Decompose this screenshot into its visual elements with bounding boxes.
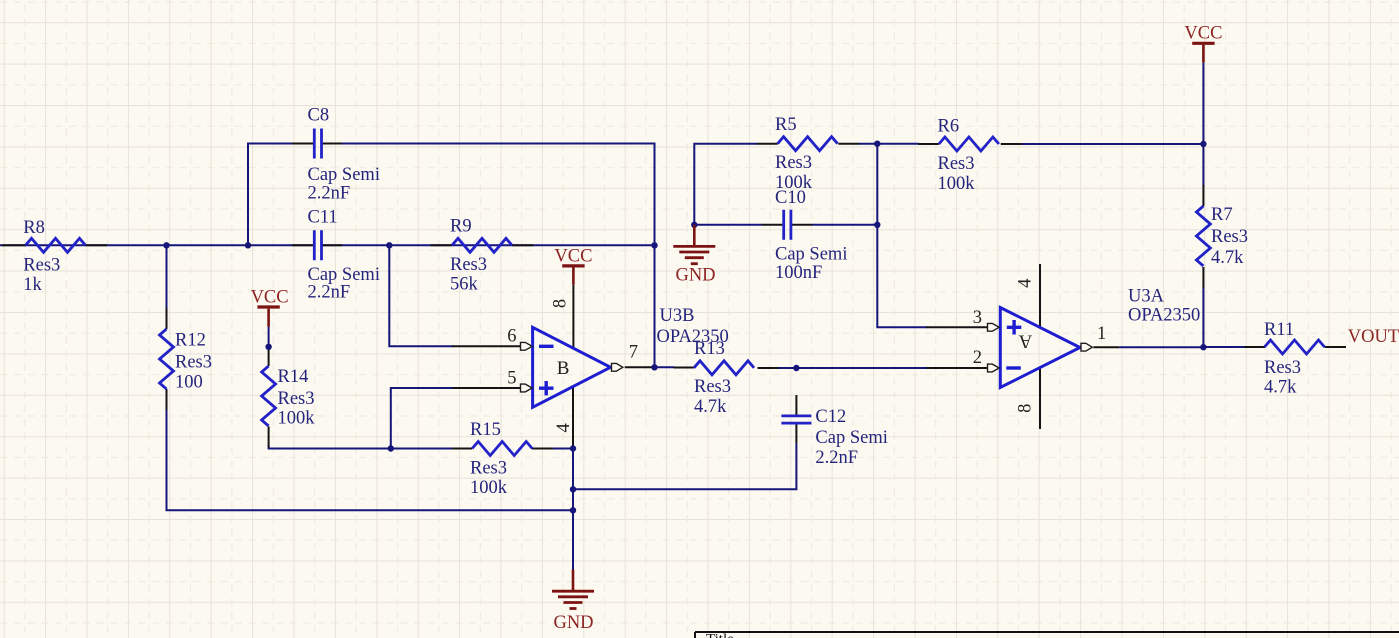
resistor R13 [694,361,754,375]
pin R14 top [268,345,270,366]
wire R14 top [268,327,270,346]
svg-text:VOUT: VOUT [1348,327,1399,347]
svg-text:Cap Semi: Cap Semi [815,428,887,448]
svg-text:U3A: U3A [1128,287,1165,307]
svg-text:R11: R11 [1264,320,1294,340]
pin R5 right [838,143,859,145]
junction R13/C12 [793,365,799,371]
svg-text:GND: GND [675,266,715,286]
svg-text:VCC: VCC [251,287,289,307]
pin R12 bottom [166,389,168,410]
wire to pin 6 [389,245,453,346]
pin R12 top [166,308,168,329]
resistor R14 (vertical) [262,366,276,426]
svg-text:Res3: Res3 [775,153,812,173]
wire R13 to pin 2 [778,367,927,369]
wire R6 right to VCC net [1021,143,1203,145]
svg-text:7: 7 [629,342,638,362]
pin 8 U3A vertical [1039,368,1041,429]
wire C12 return [573,443,796,489]
svg-text:A: A [1018,331,1032,352]
svg-text:Cap Semi: Cap Semi [308,165,380,185]
wire R15 right to pin4 [553,448,574,450]
op-amp U3B plus sign [539,381,554,395]
junction C10 right [874,222,880,228]
svg-text:4: 4 [554,423,574,432]
svg-text:Res3: Res3 [1211,227,1248,247]
pin 6 U3B horizontal [452,345,522,347]
svg-text:1k: 1k [23,275,42,295]
pin C8 right [323,143,342,145]
pin R9 left [431,244,453,246]
junction R15 right pin4 [570,445,576,451]
svg-text:56k: 56k [450,274,479,294]
svg-text:6: 6 [507,327,516,347]
svg-text:Title: Title [706,632,734,638]
svg-text:8: 8 [550,299,570,308]
svg-text:2.2nF: 2.2nF [308,283,351,303]
svg-text:Res3: Res3 [278,389,315,409]
svg-text:1: 1 [1097,324,1106,344]
wire GND/C10 left vertical [694,144,757,225]
svg-text:C10: C10 [775,188,806,208]
wire mid vertical to pin 3 [877,144,927,328]
wire C8 feedback branch [248,144,655,368]
resistor R12 (vertical) [160,329,174,389]
GND symbol bottom (U3B) [552,570,594,609]
pin 7 U3B output [625,366,655,368]
capacitor C11 plates [314,230,321,260]
resistor R11 [1265,340,1325,354]
pin R11 right [1325,346,1347,348]
capacitor C10 plates [784,210,791,240]
VCC symbol R14 [257,305,279,308]
wire C10 horizontal [694,224,877,226]
svg-text:100nF: 100nF [775,263,822,283]
pin C12 bottom [795,425,797,444]
wire VCC down through R7 [1202,63,1204,348]
svg-text:2: 2 [973,348,982,368]
svg-text:U3B: U3B [660,306,695,326]
pin R13 left [674,367,695,369]
pin R11 left [1244,346,1265,348]
resistor R9 [452,238,512,252]
junction VCC/R6 [1200,141,1206,147]
title block border [695,632,1399,638]
svg-text:3: 3 [973,308,982,328]
pin 4 U3A vertical [1039,264,1041,327]
PIN ARROWHEADS [521,323,1093,392]
svg-text:4: 4 [1015,279,1035,288]
arrow pin 7 [612,363,623,371]
wire pin4 down to GND [572,449,574,570]
svg-text:OPA2350: OPA2350 [657,327,729,347]
svg-text:4.7k: 4.7k [694,397,727,417]
pin R7 top [1202,185,1204,206]
op-amp U3A minus sign [1006,366,1021,369]
svg-text:Res3: Res3 [1264,358,1301,378]
svg-text:Res3: Res3 [23,255,60,275]
POWER NET TEXT [251,24,1223,634]
resistor R5 [778,137,838,151]
svg-text:C11: C11 [308,207,338,227]
svg-text:R6: R6 [938,117,960,137]
junction bottom wire [570,507,576,513]
svg-text:R8: R8 [23,218,45,238]
svg-text:Res3: Res3 [470,458,507,478]
svg-text:VCC: VCC [554,246,592,266]
pin R7 bottom [1202,267,1204,288]
svg-text:R5: R5 [775,115,797,135]
svg-text:OPA2350: OPA2350 [1128,306,1200,326]
svg-text:R15: R15 [470,420,501,440]
pin C8 left [292,143,313,145]
pin R9 right [512,244,534,246]
wire main input horizontal [0,244,655,246]
junction C12 return [570,486,576,492]
svg-text:100k: 100k [938,174,976,194]
pin 2 U3A horizontal [926,367,988,369]
wire U3A out to R11 [1119,346,1245,348]
svg-text:5: 5 [507,368,516,388]
op-amp U3A triangle [1000,308,1080,388]
pin R15 right [532,448,553,450]
pin C12 top [795,395,797,415]
junction U3A out/R7/R11 [1200,344,1206,350]
pin 8 U3B vertical [572,285,574,349]
pin R15 left [452,448,473,450]
capacitor C8 plates [314,129,321,159]
pin R8 left [2,244,26,246]
svg-text:4.7k: 4.7k [1211,248,1244,268]
pin C11 right [323,244,342,246]
PINS (black) [2,144,1346,449]
pin R5 left [757,143,778,145]
svg-text:R12: R12 [175,331,206,351]
junction main/pin6 branch [386,242,392,248]
pin R6 right [1001,143,1022,145]
pin R14 bottom [268,427,270,448]
resistor R15 [472,442,532,456]
resistor R6 [939,137,999,151]
svg-text:B: B [557,358,570,379]
svg-text:100: 100 [175,372,203,392]
arrow pin 3 [988,323,1000,331]
wire to pin 5 [391,388,453,449]
arrow pin 6 [521,342,533,350]
resistor R7 (vertical) [1196,206,1210,266]
arrow pin 1 [1081,343,1092,351]
wire R12 branch vertical [167,245,574,510]
wire R5 right [859,143,919,145]
junction R15 left [388,445,394,451]
VCC symbol U3B pin8 [562,264,584,267]
junction R5/R6 [874,141,880,147]
junction main/C8 branch [245,242,251,248]
capacitor C12 plates (vertical) [781,416,811,423]
wire R14 bottom to R15 [269,445,453,449]
svg-text:100k: 100k [278,408,316,428]
resistor R8 [26,238,86,252]
pin 5 U3B horizontal [452,387,522,389]
svg-text:Res3: Res3 [450,255,487,275]
svg-text:R7: R7 [1211,205,1233,225]
svg-text:4.7k: 4.7k [1264,378,1297,398]
svg-text:2.2nF: 2.2nF [815,448,858,468]
junction main/C8 right [651,242,657,248]
junction main/R12 [163,242,169,248]
pin 3 U3A horizontal [926,326,988,328]
op-amp U3B minus sign [539,345,554,348]
pin 1 U3A output [1093,346,1119,348]
svg-text:C8: C8 [308,106,330,126]
svg-text:R9: R9 [450,216,472,236]
junction R14 VCC wire [265,344,271,350]
GND symbol top (C10 net) [673,225,715,264]
pin R8 right [85,244,107,246]
svg-text:C12: C12 [815,407,846,427]
pin 4 U3B vertical [572,386,574,448]
pin R13 right [758,367,779,369]
svg-text:Res3: Res3 [175,353,212,373]
COMPONENT BODIES [26,129,1325,456]
arrow pin 2 [988,364,1000,372]
pin R6 left [918,143,939,145]
arrow pin 5 [521,384,533,392]
svg-text:R14: R14 [278,367,309,387]
svg-text:8: 8 [1015,404,1035,413]
POWER SYMBOLS [257,43,1214,608]
VCC symbol top right [1192,42,1214,45]
pin C10 right [791,224,812,226]
svg-text:100k: 100k [470,478,508,498]
svg-text:2.2nF: 2.2nF [308,184,351,204]
svg-text:Res3: Res3 [694,377,731,397]
svg-text:VCC: VCC [1184,24,1222,44]
svg-text:Cap Semi: Cap Semi [775,244,847,264]
op-amp U3B triangle [533,327,611,407]
junction U3B output [651,364,657,370]
wire U3B out to R13 [655,366,675,368]
svg-text:Res3: Res3 [938,154,975,174]
pin C10 left [762,224,783,226]
svg-text:GND: GND [553,613,593,633]
op-amp U3A plus sign [1007,320,1022,335]
junction GND/R5/C10 [691,222,697,228]
pin C11 left [292,244,313,246]
